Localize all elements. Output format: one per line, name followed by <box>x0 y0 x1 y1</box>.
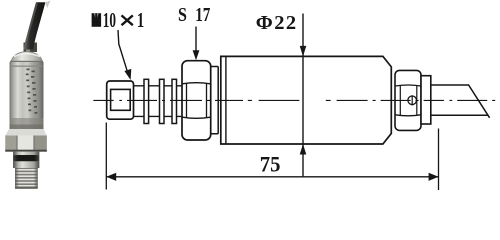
dimension line 75 <box>106 173 438 181</box>
label S17 <box>178 3 211 25</box>
shank lines between stud and hex <box>134 86 183 117</box>
rib bar 1 <box>144 79 149 123</box>
label Phi22 <box>256 12 298 34</box>
label 75 <box>260 152 281 177</box>
photo: o-ring section <box>13 152 39 168</box>
hex nut S17 <box>182 61 211 140</box>
centerline <box>93 99 497 101</box>
stud M10 inner face <box>111 89 131 110</box>
screw on right hex <box>408 95 417 105</box>
photo: top dome cap <box>10 52 43 65</box>
leader arrow M10x1 <box>118 30 131 80</box>
svg-text:1: 1 <box>137 8 144 31</box>
right hex nut <box>395 70 421 130</box>
leader arrow S17 <box>193 27 200 61</box>
photo: main cylinder body with label <box>10 62 44 129</box>
photo: threaded stud <box>15 168 38 189</box>
main body Phi22 <box>221 56 391 144</box>
rib bar 3 <box>172 79 177 123</box>
svg-text:17: 17 <box>195 3 210 25</box>
svg-text:Φ22: Φ22 <box>256 12 298 34</box>
washer plate <box>421 76 431 124</box>
svg-text:10: 10 <box>103 8 116 32</box>
dimension line Phi22 <box>300 14 307 177</box>
neck hex to body <box>211 67 219 134</box>
photo: cable gland collar <box>24 43 38 53</box>
photo: hex nut <box>5 129 47 152</box>
svg-text:75: 75 <box>260 152 281 177</box>
dimension 75 extension lines <box>106 123 438 191</box>
rib bar 2 <box>160 79 165 123</box>
stud M10 outline <box>107 81 134 119</box>
photo: sensor cable <box>24 1 51 50</box>
cable stub <box>431 85 490 118</box>
svg-text:S: S <box>178 3 187 25</box>
label M10x1 <box>92 8 145 32</box>
